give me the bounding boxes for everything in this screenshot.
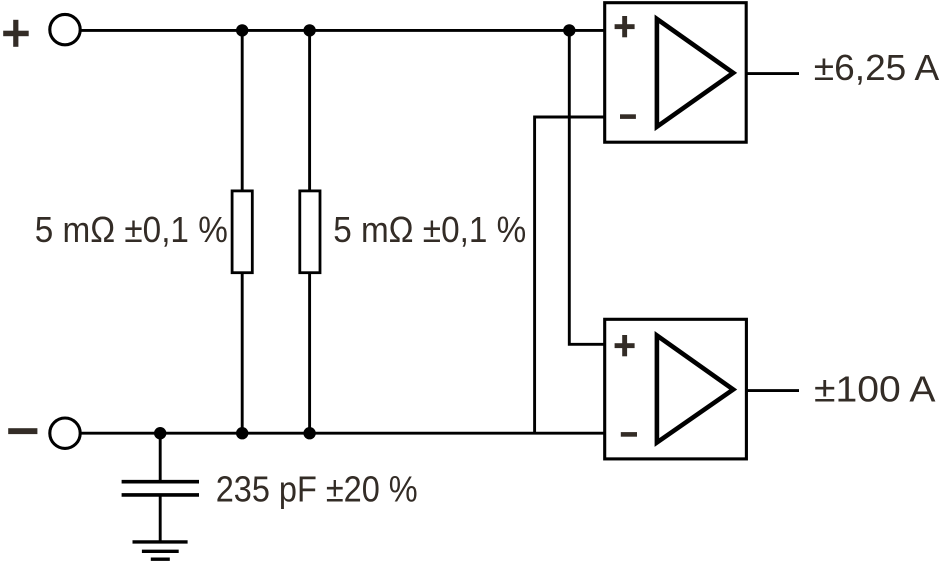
wire: R2 bottom lead <box>308 274 311 433</box>
op-amp U2 box <box>605 319 747 459</box>
svg-text:235 pF ±20 %: 235 pF ±20 % <box>216 469 418 510</box>
terminal label - <box>8 428 37 434</box>
resistor R1 body <box>232 191 252 273</box>
terminal circle (negative input) <box>50 418 80 448</box>
node: bottom rail / R2 junction <box>303 427 315 439</box>
capacitor C1 plates <box>122 482 199 495</box>
ground symbol <box>133 542 188 559</box>
wire: R1 top lead <box>241 30 244 190</box>
wire: U2 output stub <box>746 389 799 392</box>
wire: top rail junction to U2 plus input <box>569 30 604 344</box>
wire: R1 bottom lead <box>241 274 244 433</box>
wire: bottom rail <box>81 432 605 435</box>
op-amp U1 triangle <box>657 19 733 127</box>
node: bottom rail / R1 junction <box>236 427 248 439</box>
wire: C1 bottom lead <box>159 495 162 542</box>
terminal circle (positive input) <box>50 14 80 44</box>
terminal label + <box>3 20 29 47</box>
svg-text:±100 A: ±100 A <box>814 368 936 409</box>
node: top rail / R2 junction <box>303 24 315 36</box>
node: top rail / R1 junction <box>236 24 248 36</box>
wire: top rail <box>81 29 605 32</box>
node: bottom rail / C1 junction <box>154 427 166 439</box>
svg-text:5 mΩ ±0,1 %: 5 mΩ ±0,1 % <box>333 209 526 250</box>
wire: U1 output stub <box>746 72 799 75</box>
svg-text:5 mΩ ±0,1 %: 5 mΩ ±0,1 % <box>35 209 228 250</box>
wire: C1 top lead <box>159 433 162 482</box>
resistor R2 body <box>300 191 320 273</box>
op-amp U1 box <box>605 3 747 143</box>
op-amp U2 plus pin label <box>615 335 635 356</box>
node: top rail / U2 plus branch junction <box>563 24 575 36</box>
op-amp U2 triangle <box>657 336 733 443</box>
wire: R2 top lead <box>308 30 311 190</box>
op-amp U2 minus pin label <box>621 432 637 437</box>
svg-text:±6,25 A: ±6,25 A <box>814 47 940 88</box>
op-amp U1 minus pin label <box>620 114 636 119</box>
wire: U1 minus input to bottom rail <box>535 117 605 433</box>
op-amp U1 plus pin label <box>615 16 635 37</box>
